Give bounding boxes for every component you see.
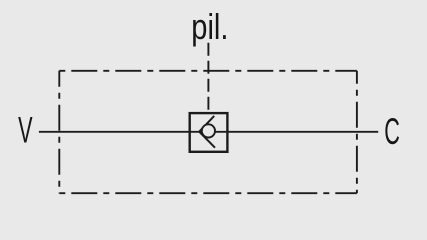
check valve seat upper line — [199, 116, 214, 132]
check valve poppet ball — [202, 124, 215, 137]
wire main line V to C — [39, 131, 378, 133]
enclosure dash-dot boundary left edge — [58, 71, 60, 193]
check valve seat lower line — [199, 132, 215, 148]
enclosure dash-dot boundary bottom edge — [59, 192, 357, 194]
enclosure dash-dot boundary top edge — [59, 70, 357, 72]
check valve body box — [190, 113, 228, 152]
wire pilot dashed line — [207, 43, 209, 113]
svg-text:pil.: pil. — [191, 6, 228, 47]
enclosure dash-dot boundary right edge — [356, 71, 358, 193]
svg-text:V: V — [18, 111, 33, 151]
svg-text:C: C — [384, 112, 400, 152]
